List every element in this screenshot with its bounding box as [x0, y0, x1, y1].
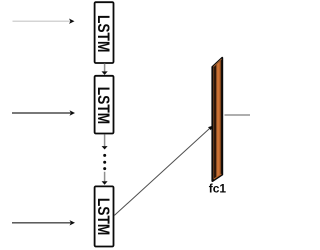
- input arrow 3 (to LSTM 3): [12, 220, 75, 225]
- LSTM box 3: [94, 186, 114, 246]
- svg-text:LSTM: LSTM: [94, 198, 113, 236]
- svg-text:LSTM: LSTM: [94, 15, 113, 53]
- LSTM box 1: [94, 2, 114, 63]
- output line from fc1: [225, 114, 251, 116]
- ellipsis dots: [103, 154, 106, 170]
- diagonal arrow LSTM3 to fc1: [114, 126, 212, 216]
- LSTM box 2: [94, 76, 114, 134]
- connector arrow dots down to box3: [102, 172, 108, 185]
- input arrow 2 (to LSTM 2): [12, 110, 75, 115]
- connector arrow box2 down to dots: [102, 135, 108, 150]
- fc1 layer slab: [212, 58, 222, 181]
- input arrow 1 (to LSTM 1): [13, 19, 75, 24]
- svg-text:fc1: fc1: [209, 182, 227, 196]
- connector arrow box1 to box2: [102, 64, 108, 75]
- svg-text:LSTM: LSTM: [94, 87, 113, 125]
